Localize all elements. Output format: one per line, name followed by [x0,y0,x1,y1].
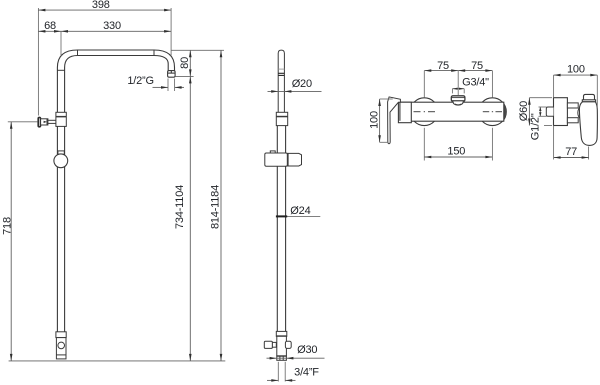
side view handle cap [582,94,595,101]
svg-text:75: 75 [437,60,449,72]
svg-text:Ø20: Ø20 [292,78,312,90]
dimension Ø20 [268,78,322,93]
svg-text:Ø30: Ø30 [297,344,317,356]
dimension 734-1104 [174,76,191,361]
mixer right union circle [479,98,507,126]
svg-text:Ø60: Ø60 [518,101,530,121]
svg-text:100: 100 [567,64,585,76]
wall supply connector body [41,119,48,125]
dimension Ø30 [267,344,325,359]
mixer cartridge housing [398,102,411,123]
svg-text:814-1184: 814-1184 [210,185,222,229]
dimension 75 right [458,60,492,72]
dimension 398 [38,0,171,11]
dimension 330 [61,20,171,33]
wall baseline [9,360,226,362]
mixer right union dark crescent [504,104,506,120]
dimension 100 side [554,64,598,108]
rail sleeve joint [276,112,287,125]
mixer left union circle [410,98,438,126]
diverter collar [58,151,64,154]
G3/4 outlet cup [451,96,465,105]
column upper sleeve joint [56,112,66,126]
column joint tick [57,69,64,71]
extension line wall face [37,8,39,116]
extension line column axis [60,31,62,56]
dimension 814-1184 [210,50,223,361]
svg-text:100: 100 [369,111,381,129]
dimension 75 left [424,60,458,72]
connector neck [48,120,56,123]
side view top port [567,103,578,108]
arm joint tick right [153,50,155,56]
svg-text:77: 77 [565,146,577,158]
slider bracket [265,151,302,166]
arm joint tick left [77,50,79,56]
dimension G1/2 [530,107,547,140]
wall supply connector flange [38,117,40,126]
dimension 718 [1,122,37,361]
valve right knob [285,341,291,348]
extension line left union [423,71,425,98]
extension line outlet level [176,75,194,77]
svg-text:734-1104: 734-1104 [174,185,186,229]
svg-text:75: 75 [471,60,483,72]
svg-text:68: 68 [44,20,56,32]
side view body block [554,98,568,126]
arm outlet nozzle [168,71,176,78]
svg-text:80: 80 [179,57,191,69]
svg-text:398: 398 [92,0,110,11]
extension line arm end [170,8,172,56]
column bottom end piece [56,338,66,359]
dimension G3/4 [452,71,489,95]
svg-text:G1/2": G1/2" [530,113,542,140]
bottom valve collar [276,331,287,336]
svg-text:Ø24: Ø24 [290,205,310,217]
valve thread section [277,356,287,360]
right union centerline [483,111,502,113]
dimension 80 [179,50,192,76]
hand shower handle rod [278,50,284,112]
dimension 77 [554,126,589,160]
svg-text:1/2”G: 1/2”G [127,75,154,87]
connector arrow dot [44,121,47,123]
valve left knob [264,341,276,348]
rail tube lower [277,166,285,331]
svg-text:330: 330 [103,20,121,32]
svg-text:G3/4": G3/4" [462,76,489,88]
diverter knob circle [54,154,68,168]
side view bottom port [567,118,578,123]
side view handle boss [578,107,584,118]
column lower tube [57,126,64,331]
side view G1/2 outlet [546,107,553,116]
mixer lever handle [388,97,401,144]
rail tube upper [277,126,285,153]
svg-text:150: 150 [447,146,465,158]
handle grip bands [278,69,284,75]
dimension 3/4"F [267,362,319,382]
extension line arm top right [172,49,225,51]
dimension 68 [38,20,61,32]
extension line right union [491,71,493,98]
dimension 1/2"G [127,75,184,91]
svg-text:3/4”F: 3/4”F [294,366,319,378]
dimension 150 [424,128,492,161]
dimension Ø24 [276,205,320,217]
dimension 100 mixer height [369,99,393,142]
left union centerline [414,111,436,113]
column bottom collar [56,332,66,338]
side view handle body [579,102,597,146]
svg-text:718: 718 [1,217,13,235]
bottom valve body [277,336,287,356]
front view shower arm and column tube [57,50,174,112]
mixer body bar [399,102,504,121]
dimension Ø60 [518,98,552,126]
